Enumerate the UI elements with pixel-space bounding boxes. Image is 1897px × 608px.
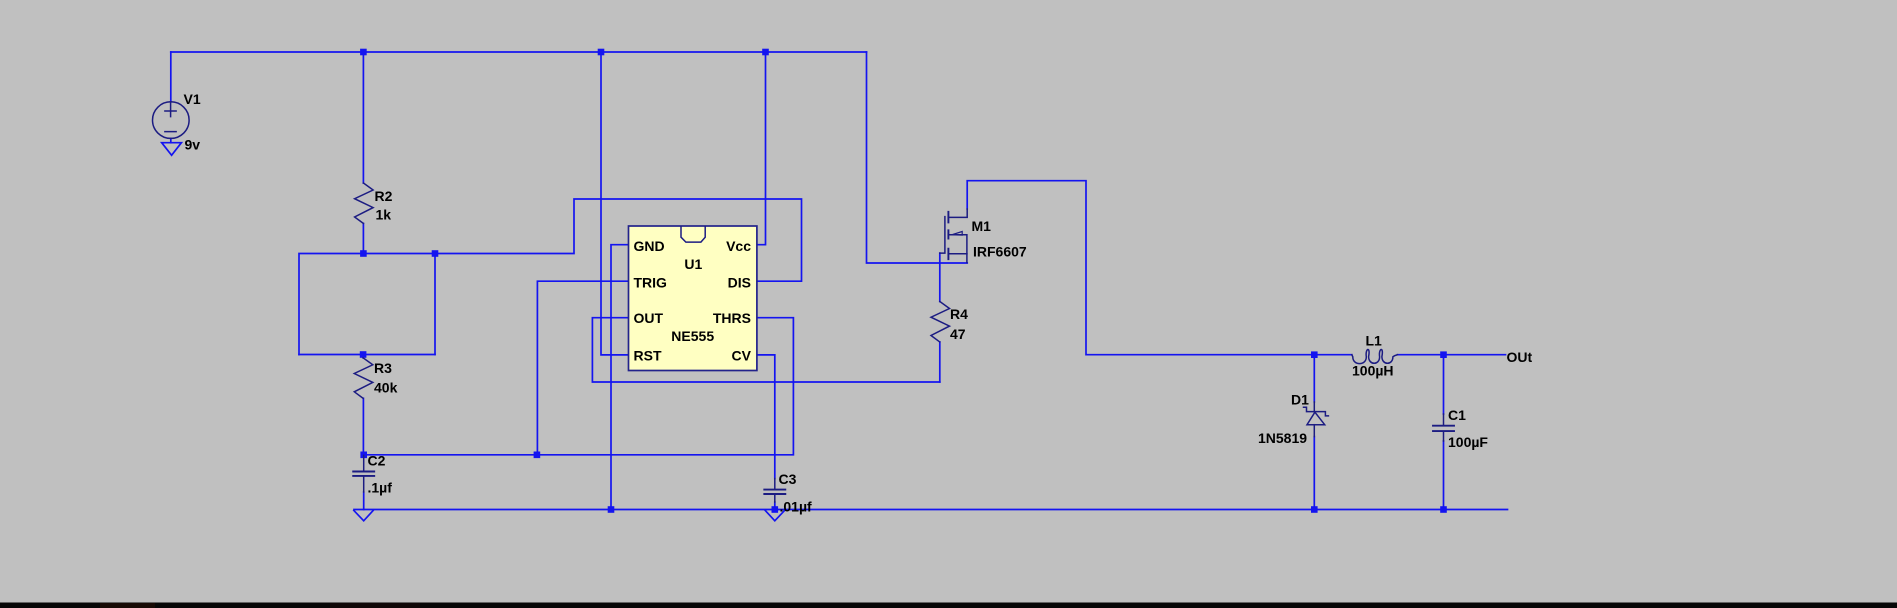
svg-text:R2: R2 bbox=[375, 188, 393, 204]
svg-text:C2: C2 bbox=[368, 453, 386, 469]
svg-text:RST: RST bbox=[634, 348, 662, 364]
svg-text:C3: C3 bbox=[779, 471, 797, 487]
svg-text:M1: M1 bbox=[972, 218, 992, 234]
svg-text:DIS: DIS bbox=[728, 274, 751, 290]
svg-text:V1: V1 bbox=[184, 91, 201, 107]
svg-text:NE555: NE555 bbox=[671, 328, 714, 344]
svg-text:R3: R3 bbox=[374, 360, 392, 376]
svg-text:OUT: OUT bbox=[634, 310, 664, 326]
svg-text:D1: D1 bbox=[1291, 392, 1309, 408]
svg-text:TRIG: TRIG bbox=[634, 274, 668, 290]
svg-text:GND: GND bbox=[634, 238, 665, 254]
svg-text:THRS: THRS bbox=[713, 310, 751, 326]
svg-text:.01µf: .01µf bbox=[780, 499, 813, 515]
svg-text:R4: R4 bbox=[950, 306, 968, 322]
svg-text:40k: 40k bbox=[374, 380, 398, 396]
svg-text:L1: L1 bbox=[1366, 333, 1383, 349]
svg-text:OUt: OUt bbox=[1507, 349, 1533, 365]
svg-text:.1µf: .1µf bbox=[368, 480, 393, 496]
svg-text:CV: CV bbox=[732, 348, 752, 364]
svg-text:100µF: 100µF bbox=[1448, 434, 1488, 450]
svg-text:1N5819: 1N5819 bbox=[1258, 430, 1307, 446]
svg-text:1k: 1k bbox=[376, 207, 392, 223]
svg-text:9v: 9v bbox=[185, 137, 201, 153]
svg-text:100µH: 100µH bbox=[1352, 363, 1394, 379]
svg-text:C1: C1 bbox=[1448, 407, 1466, 423]
svg-text:U1: U1 bbox=[684, 256, 702, 272]
svg-text:47: 47 bbox=[950, 326, 966, 342]
svg-text:IRF6607: IRF6607 bbox=[973, 244, 1027, 260]
svg-text:Vcc: Vcc bbox=[726, 238, 751, 254]
